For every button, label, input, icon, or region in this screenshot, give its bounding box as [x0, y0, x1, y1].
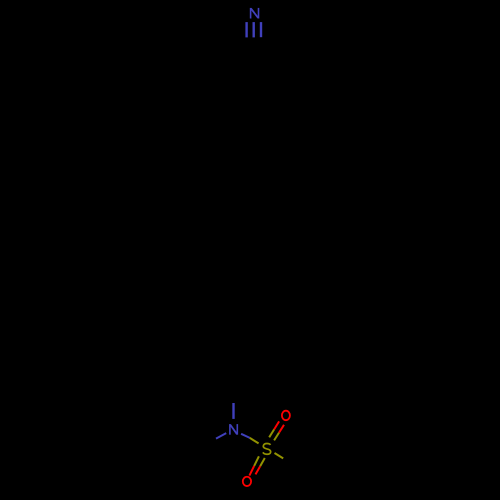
- double bond S=O upper-right, line 1 sulfur half: [269, 429, 274, 437]
- atom label N (sulfonamide nitrogen): [230, 424, 237, 435]
- bond N-S, sulfur olive half: [250, 438, 259, 444]
- double bond S=O lower-left, line 1 oxygen half: [249, 466, 254, 476]
- bond N-CH3 (N-methyl, blue half): [216, 433, 226, 439]
- atom label N (nitrile nitrogen, top): [251, 8, 259, 19]
- double bond S=O upper-right, line 2 sulfur half: [274, 433, 279, 441]
- bond S-CH3 (S-methyl, olive half): [275, 453, 284, 458]
- triple bond C#N, right line (blue half): [260, 22, 262, 37]
- atom label O (sulfonyl oxygen, upper right): [282, 411, 290, 421]
- atom label O (sulfonyl oxygen, lower left): [243, 477, 251, 486]
- double bond S=O lower-left, line 2 oxygen half: [256, 466, 261, 474]
- double bond S=O lower-left, line 2 sulfur half: [260, 458, 265, 466]
- triple bond C#N, left line (blue half): [245, 22, 247, 37]
- double bond S=O lower-left, line 1 sulfur half: [254, 456, 259, 466]
- triple bond C#N, middle line (blue half): [252, 22, 254, 37]
- atom label S (sulfonyl sulfur): [263, 444, 271, 455]
- double bond S=O upper-right, line 2 oxygen half: [279, 425, 284, 433]
- double bond S=O upper-right, line 1 oxygen half: [274, 421, 279, 429]
- bond N-S, blue half: [241, 434, 250, 438]
- bond chain-C to sulfonamide N (blue half, vertical): [232, 403, 234, 419]
